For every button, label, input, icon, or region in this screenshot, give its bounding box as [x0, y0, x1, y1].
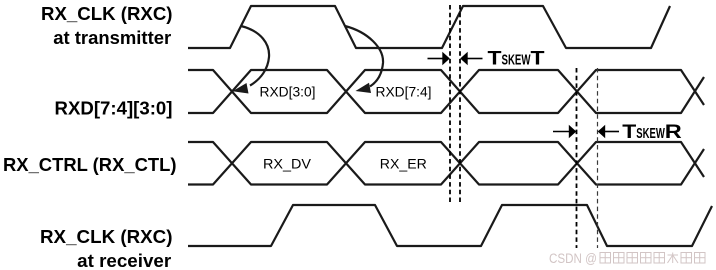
marker: dashed line at data crossing (TskewT right) — [459, 5, 461, 204]
svg-text:RX_CLK (RXC): RX_CLK (RXC) — [41, 3, 173, 24]
wire: receiver clock waveform — [188, 205, 712, 246]
marker: dashed line at data crossing (TskewR left) — [576, 68, 578, 248]
arrow: TskewR left arrow — [553, 125, 576, 138]
wire: transmitter clock waveform — [188, 6, 670, 48]
svg-text:at receiver: at receiver — [77, 250, 171, 270]
wire: RX_CTRL waveform lower trace — [188, 142, 704, 185]
svg-text:RXD[7:4]: RXD[7:4] — [376, 84, 432, 100]
watermark: pseudo CJK glyphs — [600, 253, 705, 264]
wire: RXD data waveform lower trace — [188, 70, 704, 113]
svg-text:RXD[7:4][3:0]: RXD[7:4][3:0] — [55, 98, 173, 119]
svg-text:RX_CLK (RXC): RX_CLK (RXC) — [40, 226, 173, 247]
svg-text:RX_CTRL (RX_CTL): RX_CTRL (RX_CTL) — [3, 154, 177, 175]
svg-text:at transmitter: at transmitter — [53, 27, 171, 48]
arrow: curved arrow from clock falling edge to RXD[7:4] crossing — [345, 26, 383, 93]
marker: dashed line at clock edge (TskewT left) — [449, 5, 451, 204]
svg-text:RX_DV: RX_DV — [263, 155, 312, 171]
watermark: CSDN @... — [549, 251, 597, 266]
arrow: TskewT right arrow — [460, 52, 482, 65]
wire: RXD data waveform upper trace — [188, 70, 704, 113]
svg-text:CSDN @: CSDN @ — [549, 251, 597, 266]
arrow: curved arrow from clock rising edge to RXD[3:0] crossing — [233, 26, 270, 94]
svg-text:RXD[3:0]: RXD[3:0] — [260, 84, 316, 100]
label: RX_CLK (RXC) at transmitter — [41, 3, 173, 48]
arrow: TskewT left arrow — [428, 52, 450, 65]
arrow: TskewR right arrow — [598, 125, 619, 138]
marker: dashed line at receiver clock edge (TskewR right) — [597, 68, 599, 248]
label: RX_CLK (RXC) at receiver — [40, 226, 173, 270]
wire: RX_CTRL waveform upper trace — [188, 142, 704, 185]
svg-text:RX_ER: RX_ER — [380, 155, 427, 171]
